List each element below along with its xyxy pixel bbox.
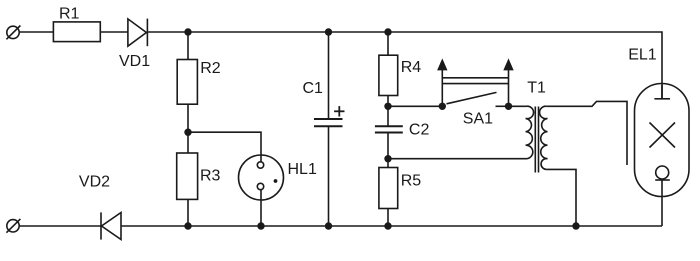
EL1 bottom electrode bar xyxy=(655,179,670,181)
diode VD2 xyxy=(101,212,121,239)
SA1 right contact node xyxy=(505,103,512,110)
wire: SA1 right to T1 primary top xyxy=(509,105,527,107)
wire: node to R4 xyxy=(387,32,389,55)
wire: terminal X2 to VD2 xyxy=(19,225,101,227)
wire: node D to SA1 left xyxy=(388,105,442,107)
wire: EL1 bottom to bottom rail xyxy=(661,197,663,227)
terminal X2 (bottom-left input) xyxy=(6,219,20,233)
SA1 left arrow shaft xyxy=(441,70,443,106)
wire: node to C1 xyxy=(328,32,330,119)
resistor R1 xyxy=(53,22,100,42)
wire: C2 to node E xyxy=(387,133,389,168)
svg-text:R1: R1 xyxy=(59,6,80,23)
node H (bottom rail / HL1) xyxy=(257,222,264,229)
resistor R4 xyxy=(379,55,398,95)
resistor R3 xyxy=(177,153,198,199)
transformer T1 primary winding xyxy=(526,106,534,158)
wire: node E to T1 primary bottom xyxy=(388,158,527,160)
resistor R2 xyxy=(177,60,197,105)
svg-text:HL1: HL1 xyxy=(288,161,317,178)
svg-text:R3: R3 xyxy=(200,167,221,184)
svg-text:VD2: VD2 xyxy=(79,174,110,191)
wire: T1 secondary top to lamp strip xyxy=(547,101,627,165)
svg-text:T1: T1 xyxy=(527,80,546,97)
wire: bottom rail VD2 to EL1 xyxy=(121,225,662,227)
SA1 blade xyxy=(447,92,497,103)
node G (bottom rail / R3) xyxy=(184,222,191,229)
svg-text:R5: R5 xyxy=(401,172,422,189)
SA1 right arrow shaft xyxy=(508,70,510,106)
wire: node A to R2 xyxy=(187,32,189,60)
diode VD1 xyxy=(128,19,147,47)
EL1 top electrode xyxy=(654,98,670,100)
node A (top rail / R2) xyxy=(184,28,191,35)
wire: R5 to bottom rail xyxy=(387,209,389,227)
wire: node B to HL1 xyxy=(188,132,261,162)
capacitor C2 xyxy=(375,126,403,132)
wire: HL1 to bottom rail xyxy=(260,190,262,226)
lamp EL1 xyxy=(635,84,690,197)
wire: R4 to node D xyxy=(387,96,389,127)
svg-text:SA1: SA1 xyxy=(463,111,493,128)
SA1 right arrowhead xyxy=(503,58,513,70)
wire: R3 to bottom rail xyxy=(187,199,189,226)
node J (bottom rail / R5) xyxy=(384,222,391,229)
transformer T1 core xyxy=(535,107,538,173)
capacitor C1 xyxy=(314,119,343,126)
node F (T1 secondary / bottom rail) xyxy=(572,222,579,229)
wire: top rail VD1 to EL1 corner xyxy=(147,32,662,99)
node B (R2/R3/HL1 junction) xyxy=(184,129,191,136)
wire: C1 to bottom rail xyxy=(328,126,330,226)
node D (R4/C2/SA1 junction) xyxy=(384,103,391,110)
SA1 fixed contact stub xyxy=(496,105,509,107)
node R4 top xyxy=(384,28,391,35)
EL1 cross xyxy=(650,123,676,148)
wire: R2 to node B xyxy=(187,104,189,153)
terminal X1 (top-left input) xyxy=(6,26,20,40)
SA1 left arrowhead xyxy=(437,58,447,70)
svg-text:C2: C2 xyxy=(409,121,430,138)
svg-text:EL1: EL1 xyxy=(628,47,657,64)
node C1 top xyxy=(325,28,332,35)
node I (bottom rail / C1) xyxy=(325,222,332,229)
wire: T1 secondary bottom to bottom rail xyxy=(547,169,576,226)
transformer T1 secondary winding xyxy=(540,106,548,169)
svg-text:R4: R4 xyxy=(401,59,422,76)
polarity plus of C1 xyxy=(334,106,344,116)
svg-text:VD1: VD1 xyxy=(119,53,150,70)
SA1 left contact node xyxy=(439,103,446,110)
switch SA1 xyxy=(437,58,514,110)
wire: terminal X1 to R1 xyxy=(19,31,53,33)
EL1 bottom electrode circle xyxy=(656,166,669,179)
resistor R5 xyxy=(379,168,398,209)
svg-text:R2: R2 xyxy=(200,60,221,77)
wire: R1 to VD1 xyxy=(100,31,128,33)
neon lamp HL1 xyxy=(239,155,284,200)
svg-text:C1: C1 xyxy=(303,80,324,97)
SA1 linkage bars xyxy=(442,77,508,79)
node E (C2/R5/T1 junction) xyxy=(384,155,391,162)
